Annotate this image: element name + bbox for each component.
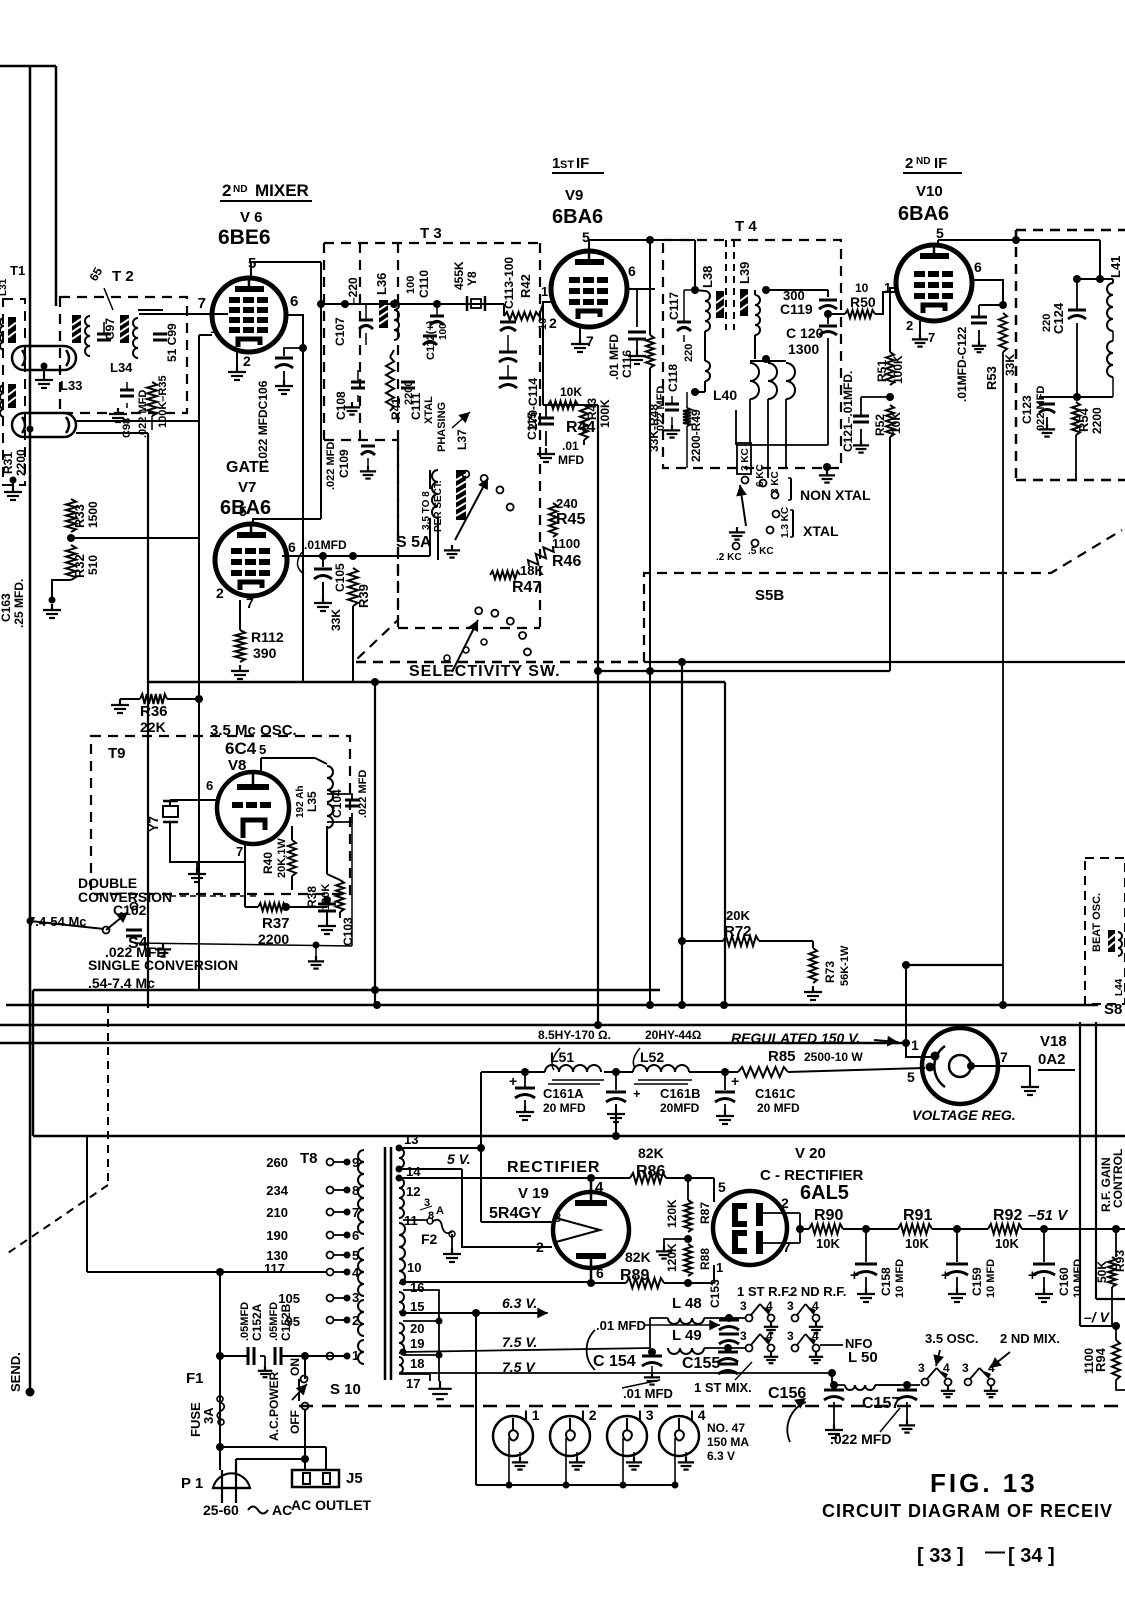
svg-text:R93: R93 xyxy=(1113,1250,1125,1272)
svg-text:7: 7 xyxy=(928,330,935,345)
svg-text:10: 10 xyxy=(855,281,869,295)
svg-text:10 MFD: 10 MFD xyxy=(985,1259,997,1298)
svg-text:2500-10 W: 2500-10 W xyxy=(804,1050,863,1064)
svg-text:7: 7 xyxy=(352,1205,359,1220)
svg-text:3.5 TO 8: 3.5 TO 8 xyxy=(421,491,432,530)
svg-text:16: 16 xyxy=(410,1280,424,1295)
svg-text:.022 MFDC106: .022 MFDC106 xyxy=(256,380,270,462)
svg-text:25-60: 25-60 xyxy=(203,1502,239,1518)
svg-text:2200: 2200 xyxy=(14,449,28,476)
svg-text:18K: 18K xyxy=(520,563,544,578)
svg-text:–220: –220 xyxy=(346,277,360,304)
svg-text:L39: L39 xyxy=(737,262,752,284)
svg-text:100K: 100K xyxy=(891,355,905,384)
svg-text:R87: R87 xyxy=(698,1202,712,1224)
svg-text:+: + xyxy=(731,1073,739,1089)
svg-text:1300: 1300 xyxy=(788,341,819,357)
svg-text:.01 MFD: .01 MFD xyxy=(596,1318,646,1333)
svg-text:19: 19 xyxy=(410,1336,424,1351)
svg-text:2: 2 xyxy=(549,315,557,331)
svg-text:6: 6 xyxy=(596,1265,604,1281)
svg-text:10 MFD: 10 MFD xyxy=(894,1259,906,1298)
svg-text:C113-100: C113-100 xyxy=(502,257,516,309)
svg-text:L41: L41 xyxy=(1108,256,1123,278)
svg-text:C158: C158 xyxy=(879,1267,893,1296)
svg-text:S5B: S5B xyxy=(755,587,784,604)
svg-text:5: 5 xyxy=(259,742,266,757)
svg-text:C161A: C161A xyxy=(543,1086,584,1101)
svg-text:—: — xyxy=(985,1541,1005,1563)
svg-text:IF: IF xyxy=(934,155,947,172)
svg-text:10 MFD: 10 MFD xyxy=(1072,1259,1084,1298)
svg-text:C115: C115 xyxy=(525,412,539,440)
svg-text:C 120: C 120 xyxy=(786,325,824,341)
svg-text:5: 5 xyxy=(718,1179,726,1195)
svg-text:3: 3 xyxy=(352,1290,359,1305)
svg-text:7.5 V.: 7.5 V. xyxy=(502,1334,537,1350)
svg-text:R37: R37 xyxy=(262,915,290,932)
svg-text:+: + xyxy=(850,1267,859,1284)
svg-text:4: 4 xyxy=(988,1361,995,1375)
svg-text:455K: 455K xyxy=(452,261,466,290)
svg-text:L 49: L 49 xyxy=(672,1327,702,1344)
svg-text:L 48: L 48 xyxy=(672,1295,702,1312)
svg-text:6.3 V: 6.3 V xyxy=(707,1449,735,1463)
svg-text:[ 33 ]: [ 33 ] xyxy=(917,1545,964,1567)
svg-text:9: 9 xyxy=(352,1155,359,1170)
svg-text:R53: R53 xyxy=(984,366,999,390)
svg-text:C160: C160 xyxy=(1057,1267,1071,1296)
svg-text:1 ST MIX.: 1 ST MIX. xyxy=(694,1380,752,1395)
svg-text:RECTIFIER: RECTIFIER xyxy=(507,1159,600,1176)
svg-text:0A2: 0A2 xyxy=(1038,1051,1066,1068)
svg-text:C111: C111 xyxy=(409,392,423,420)
svg-text:V 20: V 20 xyxy=(795,1145,826,1162)
svg-text:5: 5 xyxy=(248,255,256,272)
svg-text:8.5HY-170 Ω.: 8.5HY-170 Ω. xyxy=(538,1028,611,1042)
svg-text:AC: AC xyxy=(272,1502,292,1518)
svg-text:L37: L37 xyxy=(455,429,469,450)
svg-text:5R4GY: 5R4GY xyxy=(489,1205,542,1222)
svg-text:20 MFD: 20 MFD xyxy=(543,1101,586,1115)
svg-text:F2: F2 xyxy=(421,1231,438,1247)
svg-text:Y8: Y8 xyxy=(465,271,479,286)
svg-text:1: 1 xyxy=(352,1348,359,1363)
svg-text:3.5 Mc OSC.: 3.5 Mc OSC. xyxy=(210,722,297,739)
svg-text:6: 6 xyxy=(352,1228,359,1243)
svg-text:+: + xyxy=(1028,1267,1037,1284)
svg-text:SEND.: SEND. xyxy=(8,1352,23,1392)
svg-text:3: 3 xyxy=(787,1299,794,1313)
svg-text:3: 3 xyxy=(740,1329,747,1343)
svg-text:2: 2 xyxy=(781,1195,789,1211)
svg-text:C155: C155 xyxy=(682,1355,720,1372)
svg-text:NON XTAL: NON XTAL xyxy=(800,487,871,503)
svg-text:.01MFD-C122: .01MFD-C122 xyxy=(955,326,969,402)
svg-text:R32: R32 xyxy=(72,554,87,578)
svg-text:20: 20 xyxy=(410,1321,424,1336)
svg-text:T 3: T 3 xyxy=(420,225,442,242)
svg-text:MIXER: MIXER xyxy=(255,181,309,200)
svg-text:.022 MFD: .022 MFD xyxy=(357,770,369,818)
svg-text:A.C.POWER: A.C.POWER xyxy=(267,1371,281,1441)
svg-text:C124: C124 xyxy=(1051,302,1066,334)
svg-text:120K: 120K xyxy=(665,1199,679,1228)
svg-text:82K: 82K xyxy=(638,1145,664,1161)
svg-text:C103: C103 xyxy=(341,917,355,946)
svg-text:5: 5 xyxy=(936,225,944,241)
svg-text:33K: 33K xyxy=(1003,354,1017,376)
svg-text:3: 3 xyxy=(740,1299,747,1313)
svg-text:CONTROL: CONTROL xyxy=(1111,1149,1125,1208)
svg-text:S 5A: S 5A xyxy=(396,534,432,551)
svg-text:–/ V: –/ V xyxy=(1084,1309,1111,1325)
svg-text:6: 6 xyxy=(628,263,636,279)
svg-text:ND: ND xyxy=(233,184,247,195)
svg-text:PHASING: PHASING xyxy=(436,402,448,452)
svg-text:.54-7.4 Mc: .54-7.4 Mc xyxy=(88,975,155,991)
svg-text:C97: C97 xyxy=(103,318,117,340)
svg-text:FIG. 13: FIG. 13 xyxy=(930,1468,1038,1498)
svg-text:R47: R47 xyxy=(512,579,541,596)
svg-text:2: 2 xyxy=(905,155,913,172)
svg-text:.2 KC: .2 KC xyxy=(716,552,742,563)
svg-text:10K: 10K xyxy=(816,1236,840,1251)
svg-text:8: 8 xyxy=(352,1183,359,1198)
svg-text:260: 260 xyxy=(266,1155,288,1170)
svg-text:1: 1 xyxy=(911,1037,919,1053)
svg-text:V10: V10 xyxy=(916,183,943,200)
svg-text:C123: C123 xyxy=(1020,395,1034,424)
svg-text:56K-1W: 56K-1W xyxy=(839,945,851,986)
svg-text:20 MFD: 20 MFD xyxy=(757,1101,800,1115)
svg-text:V9: V9 xyxy=(565,187,583,204)
svg-text:T 2: T 2 xyxy=(112,268,134,285)
svg-text:6BA6: 6BA6 xyxy=(552,206,603,228)
svg-text:.5 KC: .5 KC xyxy=(748,546,774,557)
svg-text:XTAL: XTAL xyxy=(803,523,839,539)
svg-text:V 19: V 19 xyxy=(518,1185,549,1202)
svg-text:L33: L33 xyxy=(60,378,82,393)
svg-text:L52: L52 xyxy=(640,1049,664,1065)
svg-text:C157: C157 xyxy=(862,1395,900,1412)
svg-text:390: 390 xyxy=(253,645,277,661)
svg-text:6: 6 xyxy=(206,778,213,793)
svg-text:R45: R45 xyxy=(556,511,585,528)
svg-text:L51: L51 xyxy=(550,1049,574,1065)
svg-text:51 C99: 51 C99 xyxy=(165,323,179,362)
svg-text:V 6: V 6 xyxy=(240,209,263,226)
svg-text:3 KC: 3 KC xyxy=(740,448,751,471)
svg-text:R43: R43 xyxy=(585,398,599,420)
svg-text:3: 3 xyxy=(918,1361,925,1375)
svg-text:C161C: C161C xyxy=(755,1086,796,1101)
svg-text:4: 4 xyxy=(595,1179,604,1196)
svg-text:7: 7 xyxy=(783,1239,791,1255)
svg-text:22K: 22K xyxy=(140,719,166,735)
svg-text:F1: F1 xyxy=(186,1370,204,1387)
svg-text:C159: C159 xyxy=(970,1267,984,1296)
svg-text:C152B: C152B xyxy=(279,1303,293,1341)
svg-text:S 10: S 10 xyxy=(330,1381,361,1398)
svg-text:3A: 3A xyxy=(201,1407,216,1424)
svg-text:50K: 50K xyxy=(1095,1261,1109,1283)
svg-text:1: 1 xyxy=(210,321,217,336)
svg-text:VOLTAGE REG.: VOLTAGE REG. xyxy=(912,1107,1016,1123)
svg-text:20HY-44Ω: 20HY-44Ω xyxy=(645,1028,702,1042)
svg-text:18: 18 xyxy=(410,1356,424,1371)
svg-text:P 1: P 1 xyxy=(181,1475,203,1492)
svg-text:6BA6: 6BA6 xyxy=(898,203,949,225)
svg-text:2 ND MIX.: 2 ND MIX. xyxy=(1000,1331,1060,1346)
svg-text:2: 2 xyxy=(906,318,913,333)
svg-text:.022 MFD: .022 MFD xyxy=(325,442,337,490)
svg-text:L34: L34 xyxy=(110,360,133,375)
svg-text:10K: 10K xyxy=(995,1236,1019,1251)
svg-text:2200-R49: 2200-R49 xyxy=(689,409,703,462)
svg-text:T 4: T 4 xyxy=(735,218,757,235)
svg-text:R85: R85 xyxy=(768,1048,796,1065)
svg-text:5: 5 xyxy=(352,1248,359,1263)
svg-text:1 ST R.F.: 1 ST R.F. xyxy=(737,1284,791,1299)
svg-text:+: + xyxy=(941,1267,950,1284)
svg-text:234: 234 xyxy=(266,1183,288,1198)
svg-text:117: 117 xyxy=(264,1261,285,1276)
svg-text:V18: V18 xyxy=(1040,1033,1067,1050)
svg-text:NO. 47: NO. 47 xyxy=(707,1421,745,1435)
svg-text:7: 7 xyxy=(246,595,254,611)
svg-text:L35: L35 xyxy=(305,791,319,812)
svg-text:6.3 V.: 6.3 V. xyxy=(502,1295,537,1311)
svg-text:33K: 33K xyxy=(329,609,343,631)
svg-text:20MFD: 20MFD xyxy=(660,1101,700,1115)
svg-text:2 ND R.F.: 2 ND R.F. xyxy=(790,1284,846,1299)
svg-text:3: 3 xyxy=(787,1329,794,1343)
svg-text:+: + xyxy=(633,1086,641,1101)
svg-text:3 KC: 3 KC xyxy=(770,471,781,494)
svg-text:SELECTIVITY SW.: SELECTIVITY SW. xyxy=(409,663,561,680)
svg-text:T8: T8 xyxy=(300,1150,318,1167)
svg-text:100: 100 xyxy=(405,276,417,294)
svg-text:12: 12 xyxy=(406,1184,420,1199)
svg-text:6: 6 xyxy=(290,293,298,310)
svg-text:T1: T1 xyxy=(10,263,25,278)
svg-text:C153: C153 xyxy=(708,1279,722,1308)
svg-text:1: 1 xyxy=(541,284,548,299)
svg-text:.01MFD: .01MFD xyxy=(304,538,347,552)
svg-text:82K: 82K xyxy=(625,1249,651,1265)
svg-text:REGULATED 150 V.: REGULATED 150 V. xyxy=(731,1030,860,1046)
svg-text:XTAL: XTAL xyxy=(423,396,435,424)
svg-text:R54: R54 xyxy=(1076,407,1091,432)
svg-text:C110: C110 xyxy=(417,270,431,298)
svg-text:2200: 2200 xyxy=(1090,407,1104,434)
svg-text:C152A: C152A xyxy=(250,1303,264,1341)
svg-text:6 KC: 6 KC xyxy=(755,464,766,487)
svg-text:10K: 10K xyxy=(560,385,582,399)
svg-text:V7: V7 xyxy=(238,479,256,496)
svg-text:C108: C108 xyxy=(334,391,348,420)
svg-text:R51: R51 xyxy=(875,360,889,382)
svg-text:R40: R40 xyxy=(261,852,275,874)
svg-text:R50: R50 xyxy=(850,294,876,310)
svg-text:–51 V: –51 V xyxy=(1028,1207,1069,1224)
svg-text:.022 MFD: .022 MFD xyxy=(830,1431,891,1447)
svg-text:R33: R33 xyxy=(72,504,87,528)
svg-text:R31: R31 xyxy=(1,452,15,474)
svg-text:3.5 OSC.: 3.5 OSC. xyxy=(925,1331,978,1346)
svg-text:6: 6 xyxy=(288,539,296,555)
svg-text:510: 510 xyxy=(86,555,100,575)
svg-text:240: 240 xyxy=(556,496,578,511)
svg-text:14: 14 xyxy=(406,1164,421,1179)
svg-text:AC OUTLET: AC OUTLET xyxy=(291,1497,372,1513)
svg-text:R46: R46 xyxy=(552,553,581,570)
svg-text:6BE6: 6BE6 xyxy=(218,226,271,249)
svg-text:.01: .01 xyxy=(562,439,579,453)
svg-text:10K: 10K xyxy=(889,412,903,434)
svg-text:20K,1W: 20K,1W xyxy=(276,838,288,878)
svg-text:5 V.: 5 V. xyxy=(447,1151,471,1167)
svg-text:L38: L38 xyxy=(700,266,715,288)
svg-text:ON: ON xyxy=(288,1358,302,1376)
svg-text:1: 1 xyxy=(716,1260,723,1275)
svg-text:R36: R36 xyxy=(140,703,168,720)
svg-text:100: 100 xyxy=(438,323,449,340)
svg-text:OFF: OFF xyxy=(288,1410,302,1434)
svg-text:SINGLE CONVERSION: SINGLE CONVERSION xyxy=(88,957,238,973)
svg-text:C 154: C 154 xyxy=(593,1353,636,1370)
svg-text:6AL5: 6AL5 xyxy=(800,1182,849,1204)
svg-text:R112: R112 xyxy=(251,629,284,645)
svg-text:2: 2 xyxy=(222,181,231,200)
svg-text:7: 7 xyxy=(1000,1049,1008,1065)
svg-text:IF: IF xyxy=(576,155,589,172)
svg-text:6C4: 6C4 xyxy=(225,739,257,758)
svg-text:5: 5 xyxy=(907,1069,915,1085)
svg-text:[ 34 ]: [ 34 ] xyxy=(1008,1545,1055,1567)
svg-text:220: 220 xyxy=(683,344,695,362)
svg-text:GATE: GATE xyxy=(226,459,270,476)
svg-text:1500: 1500 xyxy=(86,501,100,528)
svg-text:BEAT OSC.: BEAT OSC. xyxy=(1091,893,1103,952)
svg-text:2: 2 xyxy=(243,353,251,369)
svg-text:7: 7 xyxy=(198,295,206,312)
svg-text:C121–.01MFD.: C121–.01MFD. xyxy=(841,371,855,452)
svg-text:10K: 10K xyxy=(905,1236,929,1251)
svg-text:MFD: MFD xyxy=(558,453,584,467)
svg-text:L 50: L 50 xyxy=(848,1349,878,1366)
svg-text:.25 MFD.: .25 MFD. xyxy=(12,579,26,628)
svg-text:R41: R41 xyxy=(389,398,403,420)
svg-text:.022 MFD: .022 MFD xyxy=(137,390,149,438)
svg-text:1100: 1100 xyxy=(552,536,580,551)
svg-text:5: 5 xyxy=(239,503,247,519)
svg-text:CIRCUIT DIAGRAM OF RECEIV: CIRCUIT DIAGRAM OF RECEIV xyxy=(822,1501,1113,1521)
svg-text:J5: J5 xyxy=(346,1470,363,1487)
svg-text:15: 15 xyxy=(410,1299,424,1314)
svg-text:C116: C116 xyxy=(620,350,634,378)
svg-text:1.3 KC: 1.3 KC xyxy=(780,507,791,538)
svg-text:4: 4 xyxy=(352,1265,360,1280)
svg-text:L36: L36 xyxy=(374,273,389,295)
svg-text:7: 7 xyxy=(586,333,594,349)
svg-text:17: 17 xyxy=(406,1376,420,1391)
svg-text:C109: C109 xyxy=(337,449,351,478)
svg-text:2: 2 xyxy=(216,585,224,601)
svg-text:C107: C107 xyxy=(333,317,347,346)
svg-text:C105: C105 xyxy=(333,563,347,592)
svg-text:R39: R39 xyxy=(356,584,371,608)
svg-text:20K: 20K xyxy=(726,908,750,923)
svg-text:L40: L40 xyxy=(713,387,737,403)
svg-text:2: 2 xyxy=(352,1313,359,1328)
svg-text:100K: 100K xyxy=(598,399,612,428)
svg-text:R38: R38 xyxy=(305,886,319,908)
svg-text:L44: L44 xyxy=(1114,978,1125,996)
svg-text:6: 6 xyxy=(974,259,982,275)
svg-text:R94: R94 xyxy=(1093,1347,1108,1372)
svg-text:7: 7 xyxy=(236,844,243,859)
svg-text:Y7: Y7 xyxy=(146,816,161,832)
svg-text:C102: C102 xyxy=(113,902,147,918)
svg-text:190: 190 xyxy=(266,1228,288,1243)
svg-text:10: 10 xyxy=(407,1260,421,1275)
svg-text:A: A xyxy=(436,1205,444,1217)
svg-text:L31: L31 xyxy=(0,278,9,296)
svg-text:T9: T9 xyxy=(108,745,126,762)
svg-text:3: 3 xyxy=(962,1361,969,1375)
svg-text:.01 MFD: .01 MFD xyxy=(607,334,621,380)
svg-text:ND: ND xyxy=(916,156,930,167)
svg-text:13: 13 xyxy=(404,1132,418,1147)
svg-text:R52: R52 xyxy=(873,414,887,436)
svg-text:R42: R42 xyxy=(518,274,533,298)
svg-text:R88: R88 xyxy=(698,1248,712,1270)
svg-text:150 MA: 150 MA xyxy=(707,1435,749,1449)
svg-text:120K: 120K xyxy=(665,1243,679,1272)
svg-text:C161B: C161B xyxy=(660,1086,700,1101)
svg-text:.01 MFD: .01 MFD xyxy=(623,1386,673,1401)
svg-text:C118: C118 xyxy=(666,364,680,392)
svg-text:210: 210 xyxy=(266,1205,288,1220)
svg-text:R73: R73 xyxy=(823,961,837,983)
svg-text:C119: C119 xyxy=(780,301,813,317)
svg-text:2: 2 xyxy=(536,1239,544,1255)
svg-text:ST: ST xyxy=(560,159,574,171)
svg-text:C117: C117 xyxy=(667,292,681,320)
